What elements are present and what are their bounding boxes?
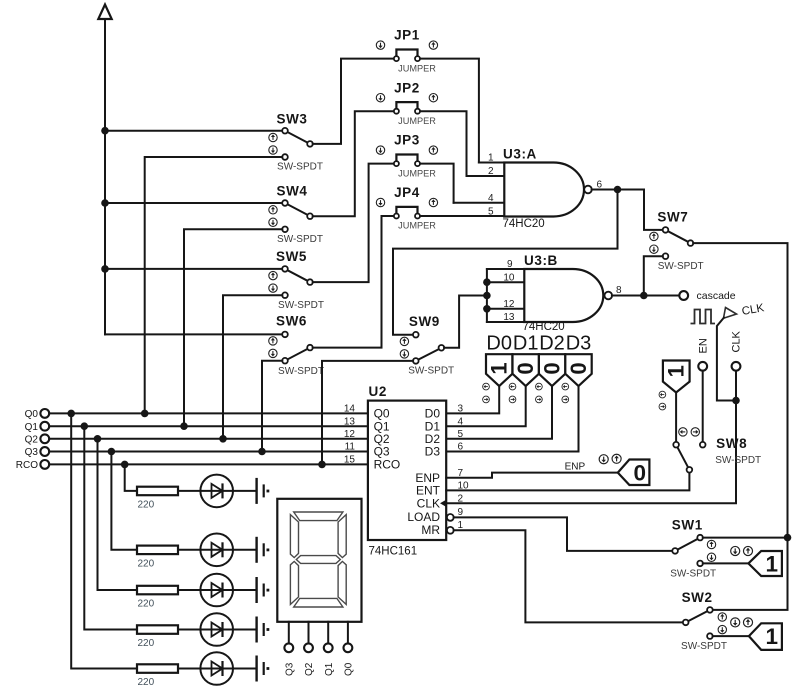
U3:B junction input node	[483, 292, 491, 300]
7-segment display body	[277, 499, 361, 622]
svg-text:ENT: ENT	[416, 484, 441, 498]
wire D1 to U2 pin4	[446, 386, 526, 426]
resistor R2 220 row2	[137, 546, 178, 570]
svg-text:220: 220	[138, 558, 155, 569]
wire net Q3	[49, 451, 368, 453]
svg-text:EN: EN	[698, 338, 710, 353]
7seg segment d	[294, 598, 343, 607]
svg-text:D0: D0	[486, 332, 512, 354]
U3:B output bubble	[605, 292, 613, 300]
svg-text:220: 220	[138, 638, 155, 649]
wire net Q1	[49, 425, 368, 427]
svg-text:SW-SPDT: SW-SPDT	[408, 365, 454, 376]
wire ENP to logic 0	[446, 473, 618, 478]
wire net Q0	[49, 412, 368, 414]
svg-text:cascade: cascade	[697, 290, 736, 302]
wire SW6 throw2 to Q3	[262, 361, 282, 452]
svg-text:220: 220	[138, 677, 155, 688]
svg-text:Q1: Q1	[25, 422, 39, 433]
svg-text:5: 5	[458, 429, 464, 440]
wire U3:A out down to SW9 throw1	[393, 190, 618, 335]
svg-text:SW-SPDT: SW-SPDT	[681, 641, 727, 652]
svg-text:Q1: Q1	[324, 662, 335, 676]
wire SW7 throw2 to U3:B output node	[644, 256, 663, 295]
power rail VCC arrow	[98, 5, 111, 335]
cell/ground row4	[257, 617, 270, 643]
terminal EN	[698, 338, 710, 371]
svg-text:ENP: ENP	[565, 461, 586, 472]
junction right bus at SW1	[784, 534, 792, 542]
svg-text:220: 220	[138, 599, 155, 610]
svg-text:Q3: Q3	[284, 662, 295, 676]
7seg terminal Q2	[304, 643, 315, 676]
clock generator waveform	[691, 310, 716, 324]
logic toggle D2	[536, 332, 566, 402]
junction Q3 at SW6 drop	[258, 448, 266, 456]
svg-text:SW4: SW4	[276, 184, 307, 199]
wire SW4 common to JP2	[313, 111, 394, 216]
svg-text:SW3: SW3	[276, 112, 307, 127]
svg-text:13: 13	[503, 312, 515, 323]
wire power to SW5	[105, 268, 282, 270]
svg-text:SW-SPDT: SW-SPDT	[670, 569, 716, 580]
wire RCO drop to row1	[125, 464, 137, 491]
U3:B pin 12 stub	[487, 308, 524, 310]
svg-text:Q2: Q2	[25, 434, 39, 445]
wire Q2 drop to row3	[98, 439, 138, 590]
junction Q2 drop	[94, 435, 102, 443]
junction U3:A output node	[614, 186, 622, 194]
logic toggle 1 for SW8	[659, 361, 690, 410]
resistor R4 220 row4	[137, 625, 178, 649]
svg-text:74HC161: 74HC161	[369, 546, 418, 558]
svg-text:D1: D1	[513, 332, 539, 354]
wire SW1 throw1 to right bus	[703, 537, 788, 539]
wire SW2 throw2 to logic 1	[713, 635, 749, 637]
svg-text:U2: U2	[369, 384, 387, 399]
switch SW5	[269, 249, 324, 311]
svg-text:U3:B: U3:B	[524, 253, 558, 268]
svg-text:Q0: Q0	[344, 662, 355, 676]
jumper JP1	[376, 28, 437, 74]
switch SW1	[670, 517, 716, 579]
wire JP4 to U3:A pin5	[420, 215, 504, 218]
7seg segment a	[294, 512, 343, 521]
svg-text:14: 14	[344, 404, 356, 415]
7seg terminal Q0	[344, 643, 355, 676]
wire JP1 to U3:A pin1	[420, 59, 479, 163]
svg-text:9: 9	[458, 507, 464, 518]
U2 clock pin triangle	[440, 500, 446, 507]
junction Q2 at SW5 drop	[219, 435, 227, 443]
svg-text:Q0: Q0	[25, 409, 39, 420]
U3:A pin 1 stub	[479, 162, 504, 164]
svg-text:220: 220	[138, 499, 155, 510]
wire power to SW4	[105, 202, 282, 204]
logic state 1 on SW1	[731, 546, 782, 576]
wire U3:A out to SW7 throw1	[644, 190, 663, 230]
wire CLK to clock net	[446, 371, 736, 504]
svg-text:0: 0	[633, 461, 646, 486]
switch SW6	[269, 314, 324, 377]
svg-text:CLK: CLK	[417, 497, 440, 511]
svg-text:11: 11	[345, 442, 356, 453]
svg-text:SW8: SW8	[716, 436, 747, 451]
junction Q3 drop	[108, 448, 116, 456]
jumper JP3	[376, 133, 437, 179]
svg-text:SW-SPDT: SW-SPDT	[277, 162, 323, 173]
svg-text:SW5: SW5	[276, 249, 307, 264]
logic state 1 on SW2	[731, 618, 782, 650]
svg-text:4: 4	[488, 193, 494, 204]
switch SW7	[650, 209, 704, 272]
terminal RCO	[16, 460, 49, 471]
junction on power rail at SW4	[101, 199, 109, 207]
svg-text:JUMPER: JUMPER	[398, 221, 436, 231]
svg-text:SW-SPDT: SW-SPDT	[277, 234, 323, 245]
wire power to SW3	[105, 130, 282, 132]
svg-text:LOAD: LOAD	[407, 510, 440, 524]
svg-text:9: 9	[507, 259, 513, 270]
svg-text:SW-SPDT: SW-SPDT	[658, 261, 704, 272]
wire SW9 common to U3:B input node	[444, 296, 487, 348]
svg-text:D3: D3	[566, 332, 592, 354]
svg-text:1: 1	[664, 365, 689, 377]
wire JP2 to U3:A pin2	[420, 111, 466, 176]
junction on power rail at SW3	[101, 127, 109, 135]
U3:A output bubble	[584, 186, 592, 194]
7seg segment c	[338, 561, 346, 604]
NAND gate U3:B 74HC20	[483, 253, 622, 333]
cell/ground row5	[257, 656, 270, 682]
terminal Q3	[25, 447, 50, 458]
wire U3:B output to cascade	[612, 295, 679, 297]
svg-text:0: 0	[513, 362, 538, 374]
7seg terminal Q3	[284, 643, 295, 676]
wire SW5 common to JP3	[313, 164, 394, 283]
7seg pin wire Q3	[288, 622, 290, 644]
U3:A body	[504, 163, 584, 217]
terminal CLK	[730, 330, 742, 370]
svg-text:RCO: RCO	[16, 460, 38, 471]
LED D_Q2 row3	[178, 574, 256, 607]
svg-text:12: 12	[344, 429, 356, 440]
7seg pin wire Q0	[347, 622, 349, 644]
wire SW9 throw2 to RCO	[322, 361, 413, 465]
wire D3 to U2 pin6	[446, 386, 578, 452]
7seg pin wire Q2	[308, 622, 310, 644]
svg-text:JUMPER: JUMPER	[398, 168, 436, 178]
svg-text:SW2: SW2	[682, 590, 713, 605]
U3:B junction pin10	[483, 278, 491, 286]
NAND gate U3:A 74HC20	[454, 147, 603, 230]
clock generator flag	[724, 308, 737, 319]
svg-text:12: 12	[503, 299, 515, 310]
counter U2 74HC161	[344, 384, 469, 557]
terminal Q0	[25, 409, 50, 420]
wire SW4 throw2 to Q1	[184, 229, 282, 426]
wire ENT to SW8 common	[446, 473, 689, 491]
wire MR to SW2 common	[454, 530, 683, 622]
wire D2 to U2 pin5	[446, 386, 552, 439]
svg-text:JUMPER: JUMPER	[398, 63, 436, 73]
junction CLK net	[732, 397, 740, 405]
U3:A pin 2 stub	[467, 175, 505, 177]
terminal Q2	[25, 434, 50, 445]
svg-text:1: 1	[487, 362, 512, 374]
junction Q0 at SW3 drop	[141, 410, 149, 418]
logic toggle D1	[509, 332, 539, 402]
junction Q0 drop	[67, 410, 75, 418]
wire toggle1 to SW8 throw left	[675, 393, 677, 443]
switch SW8	[673, 428, 761, 473]
wire SW3 common to JP1	[313, 59, 394, 144]
svg-text:10: 10	[503, 272, 515, 283]
7seg segment b	[338, 515, 346, 558]
U3:A pin 4 stub	[454, 202, 505, 204]
resistor R3 220 row3	[137, 586, 178, 610]
wire SW7 common down right edge	[693, 243, 787, 610]
svg-text:1: 1	[766, 552, 779, 577]
junction Q1 drop	[81, 422, 89, 430]
U2 MR bubble	[447, 527, 454, 534]
wire LOAD to SW1 common	[454, 517, 673, 551]
jumper JP2	[376, 80, 437, 126]
wire net Q2	[49, 438, 368, 440]
svg-text:JP3: JP3	[394, 133, 420, 148]
logic toggle D0	[483, 332, 513, 402]
logic toggle D3	[562, 332, 592, 402]
U3:B input bus	[486, 269, 488, 322]
7seg terminal Q1	[324, 643, 335, 676]
switch SW4	[269, 184, 323, 245]
LED D_Q1 row4	[178, 613, 256, 646]
svg-text:RCO: RCO	[374, 458, 401, 472]
switch SW9	[400, 314, 454, 377]
svg-text:Q3: Q3	[25, 447, 39, 458]
svg-text:U3:A: U3:A	[503, 147, 537, 162]
jumper JP4	[376, 185, 437, 231]
wire SW6 common to JP4	[313, 216, 394, 348]
switch SW2	[681, 590, 727, 652]
wire Q3 drop to row2	[111, 452, 137, 550]
svg-text:SW-SPDT: SW-SPDT	[278, 366, 324, 377]
svg-text:15: 15	[344, 455, 356, 466]
svg-text:SW-SPDT: SW-SPDT	[715, 455, 761, 466]
svg-text:CLK: CLK	[730, 330, 742, 352]
svg-text:SW-SPDT: SW-SPDT	[278, 300, 324, 311]
junction RCO drop	[121, 461, 129, 469]
svg-text:SW9: SW9	[409, 314, 440, 329]
svg-text:2: 2	[488, 166, 494, 177]
U2 LOAD bubble	[447, 514, 454, 521]
U3:B pin 13 stub	[487, 321, 524, 323]
wire JP3 to U3:A pin4	[420, 164, 453, 203]
svg-text:1: 1	[458, 520, 464, 531]
svg-text:13: 13	[344, 416, 356, 427]
wire clock to CLK net	[717, 318, 736, 401]
7seg segment f	[290, 515, 298, 558]
wire SW5 throw2 to Q2	[223, 295, 282, 439]
wire D0 to U2 pin3	[446, 386, 499, 413]
cell/ground row1	[257, 478, 270, 504]
svg-text:0: 0	[566, 362, 591, 374]
wire Q0 drop to row5	[71, 413, 137, 668]
svg-text:JUMPER: JUMPER	[398, 116, 436, 126]
svg-text:74HC20: 74HC20	[523, 321, 565, 333]
svg-text:0: 0	[539, 362, 564, 374]
7seg segment e	[290, 561, 298, 604]
svg-text:SW6: SW6	[276, 314, 307, 329]
U3:B pin 9 stub	[487, 268, 524, 270]
svg-text:JP1: JP1	[394, 28, 420, 43]
junction on power rail at SW5	[101, 265, 109, 273]
LED D_RCO row1	[178, 475, 256, 508]
U3:B junction pin12	[483, 305, 491, 313]
junction U3:B out at SW7 throw2 drop	[640, 292, 648, 300]
svg-text:JP2: JP2	[394, 80, 420, 95]
terminal cascade	[679, 290, 735, 302]
svg-text:6: 6	[458, 442, 464, 453]
logic state 0 on ENP	[599, 454, 649, 485]
svg-text:3: 3	[458, 404, 464, 415]
switch SW3	[269, 112, 323, 173]
svg-text:1: 1	[488, 153, 494, 164]
resistor R5 220 row5	[137, 664, 178, 688]
svg-text:MR: MR	[421, 523, 440, 537]
terminal Q1	[25, 422, 50, 433]
junction RCO at SW9 drop	[318, 461, 326, 469]
wire SW1 throw2 to logic 1	[703, 562, 749, 564]
svg-text:D2: D2	[539, 332, 565, 354]
wire Q1 drop to row4	[84, 426, 137, 629]
svg-text:D3: D3	[425, 445, 441, 459]
wire SW3 throw2 to Q0	[145, 157, 283, 413]
svg-text:Q3: Q3	[374, 445, 390, 459]
cell/ground row2	[257, 537, 270, 563]
wire EN to SW8 throw right	[702, 371, 704, 442]
wire net RCO	[49, 463, 368, 465]
junction Q1 at SW4 drop	[180, 422, 188, 430]
svg-text:74HC20: 74HC20	[503, 218, 545, 230]
svg-text:5: 5	[488, 207, 494, 218]
svg-text:1: 1	[766, 624, 779, 649]
wire power to SW6	[105, 333, 282, 335]
LED D_Q0 row5	[178, 652, 256, 685]
U3:B pin 10 stub	[487, 281, 524, 283]
LED D_Q3 row2	[178, 534, 256, 567]
7seg segment g	[296, 556, 340, 564]
wire U3:A output	[592, 189, 644, 191]
svg-text:SW7: SW7	[657, 209, 688, 224]
7seg pin wire Q1	[327, 622, 329, 644]
resistor R1 220 row1	[137, 487, 178, 511]
svg-text:JP4: JP4	[394, 185, 420, 200]
U3:B body	[524, 269, 603, 322]
svg-text:4: 4	[458, 416, 464, 427]
svg-text:Q2: Q2	[304, 662, 315, 676]
cell/ground row3	[257, 577, 270, 603]
svg-text:SW1: SW1	[672, 517, 703, 532]
